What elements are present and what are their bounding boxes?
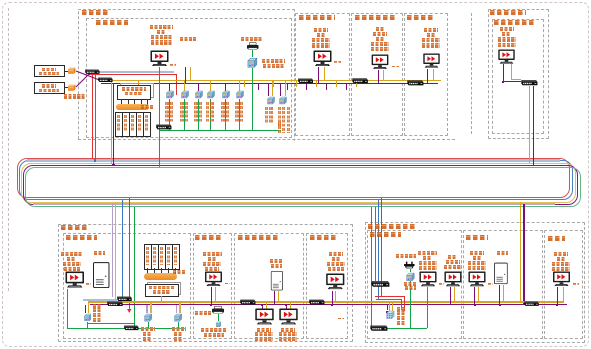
wire gold globe stub1 [389, 303, 390, 311]
wire green MB1 down [67, 289, 68, 329]
rack2 workstation box [145, 284, 179, 297]
label server above page [180, 37, 196, 41]
box station-concentration outer [488, 9, 549, 139]
rack1 bar 2 text [124, 115, 127, 132]
label cube 8 col1 [278, 107, 281, 127]
junction bus bottom 10 [453, 301, 455, 303]
wire green below cube 3 [198, 99, 199, 130]
label backup signal-room [66, 235, 97, 240]
ellipsis after MB6 [439, 283, 444, 285]
wire green below cube 5 [225, 99, 226, 130]
switch SWB [106, 301, 123, 307]
label firewall-group [64, 94, 85, 98]
label below NMS cube [404, 282, 417, 286]
switch S7 [520, 79, 538, 87]
wire gold MB7-bus [454, 287, 455, 301]
label network printer top [241, 37, 262, 41]
wire green NMS down [410, 281, 411, 328]
bus lightblue bottom [83, 299, 118, 301]
rack2 bar 4 [165, 244, 173, 270]
rack1 bar 3 text [131, 115, 134, 132]
ellipsis after MT3 [392, 66, 399, 68]
cube tiny below printer2 [215, 321, 222, 328]
junction purple globe [386, 311, 388, 313]
wire tan ring-down [115, 202, 117, 299]
divider dashed vline x471 [471, 13, 472, 135]
wire T1 to modem1 [65, 71, 68, 72]
wire gold MB9-bus [563, 287, 564, 302]
box duty/control inner [492, 19, 544, 134]
junction purple MB9 [556, 304, 558, 306]
rack1 box shadow [120, 83, 154, 98]
cube access-gateway-1 [143, 313, 152, 322]
wire purple MB3-bus [262, 305, 263, 309]
wire purple MT5 down [503, 64, 504, 83]
wire blue hline right-group [376, 299, 401, 300]
monitor MB6 [419, 271, 437, 287]
wire bus stub 8 [326, 84, 327, 90]
wire green ring-down r2 [375, 207, 376, 281]
label terminal T2 text [42, 84, 56, 87]
wire purple MB9-bus [557, 287, 558, 305]
switch SB8 [523, 300, 539, 307]
cabinet CB3 server [494, 262, 508, 285]
rack2 bar 1 text [146, 247, 149, 265]
wire purple diagonal M2-S1 [75, 72, 91, 88]
wire green MB6 down [427, 287, 428, 328]
label waiting-room [548, 236, 565, 241]
label cube 5 col2 [226, 102, 229, 122]
label above MB2 [203, 252, 222, 256]
wire bus stub 2 [258, 84, 259, 90]
wire purple MT3-bus [378, 70, 379, 84]
cube firewall top-center [246, 57, 258, 69]
cube row 2 [180, 90, 189, 99]
label gate signal-room [370, 232, 401, 237]
label big-screen system [141, 105, 153, 109]
label cube 7 col1 [265, 107, 268, 123]
wire purple drop cube8 [280, 84, 281, 96]
wire gold MT5 down [511, 64, 512, 80]
label below printer2 [201, 328, 227, 332]
ring top lightblue band [27, 159, 560, 162]
wire green cube2 down [148, 322, 149, 328]
wire green strip-cube [410, 269, 411, 273]
switch SWA [116, 296, 132, 302]
cabinet CB1 backup-server [92, 262, 111, 288]
wire lavender cube3 [176, 305, 178, 313]
label above CB1 [94, 251, 105, 255]
wire purple MT2-bus [318, 67, 319, 84]
bus purple top [101, 83, 438, 84]
wire gold MB2-bus [215, 287, 216, 302]
label cube 8 col2 [282, 107, 285, 133]
ring purple [23, 165, 578, 205]
ellipsis after MB8 [488, 283, 493, 285]
wire drop to cube 3 [198, 84, 199, 91]
label cube 3 col1 [194, 102, 197, 122]
wire blue ring-down right [378, 200, 379, 299]
modem M2 orange [67, 84, 77, 91]
wire green cube-bus [252, 68, 253, 130]
wire purple MB5-bus [332, 291, 333, 305]
label duty/control [494, 20, 536, 25]
wire green ring-down-left [134, 207, 135, 329]
wire green printer-cube [252, 50, 253, 56]
wire drop to cube 6 [239, 81, 240, 91]
wire gold CB2-bus [278, 291, 279, 302]
rack1 bar 1 text [117, 115, 120, 132]
wire tan cube2 [150, 303, 152, 314]
ring bottom lavender band [33, 203, 555, 205]
wire green below cube 2 [184, 99, 185, 130]
rack2 bar 5 text [174, 247, 177, 265]
label cube 6 col2 [240, 102, 243, 122]
printer bottom hall [211, 305, 225, 315]
cabinet CB2 sim-host [270, 271, 284, 291]
label above MB1 [61, 252, 82, 256]
wire green below cube 6 [239, 99, 240, 130]
label control-room [466, 235, 488, 240]
label below MB4 [281, 328, 295, 332]
ellipsis after MT2 [334, 61, 341, 63]
label cube 1 col1 [165, 102, 168, 122]
monitor MT2 hall [313, 50, 332, 67]
wire purple page-bus [185, 67, 186, 84]
wire green ring-down r1 [371, 207, 372, 329]
terminal box T1 [34, 65, 65, 77]
cube row 1 [165, 90, 174, 99]
wire purple MT4-bus [427, 69, 428, 84]
rack2 stem 3 [161, 268, 162, 273]
switch S4 [297, 78, 314, 84]
plug power-strip [403, 261, 416, 269]
wire bus stub 6 [306, 84, 307, 90]
wire bus stub 9 [336, 81, 337, 87]
box control-center outer [78, 9, 295, 142]
wire red ring-down [129, 198, 130, 310]
junction bus bottom 9 [335, 301, 337, 303]
wire green cube3 down [178, 322, 179, 328]
label cube 4 col1 [206, 102, 209, 122]
monitor MT1 maintenance-ws [150, 50, 169, 67]
label above MT2 [314, 28, 328, 32]
label cube 1 col2 [170, 102, 173, 122]
junction bus bottom 3 [285, 304, 287, 306]
label right of fw cube [93, 304, 103, 308]
wire purple S7-ring [533, 86, 534, 165]
label backup training [238, 235, 278, 240]
wire lavender ring-down [112, 204, 114, 297]
rack1 bar 3 [129, 112, 137, 137]
monitor MT3 training [370, 54, 390, 70]
junction bus bottom 2 [261, 304, 263, 306]
wire gold switchA-cube [88, 303, 89, 314]
rack2 stem 1 [147, 268, 148, 273]
rack1 stem4 [141, 99, 142, 105]
label cube 8 col3 [287, 107, 290, 133]
arrow red down [127, 309, 132, 313]
box backup-center outer [58, 224, 353, 342]
label cube 2 col2 [185, 102, 188, 122]
switch SB6 gate [370, 280, 390, 288]
cube row 4 [206, 90, 215, 99]
label above MT3 [376, 27, 385, 31]
wire drop to cube 4 [210, 81, 211, 91]
wire gold MT5 elbow [511, 79, 521, 80]
wire gold drop cube7 [272, 81, 273, 96]
junction bus bottom 11 [503, 301, 505, 303]
bus green bottom-right [371, 328, 427, 329]
box waiting-room [544, 230, 583, 339]
junction purple on ring [112, 164, 114, 166]
label hall top-1 [299, 15, 335, 20]
rack2 bar 3 [158, 244, 166, 270]
label backup-center [61, 225, 88, 230]
ellipsis after MT1 [170, 64, 176, 66]
label signal-equip-room [96, 20, 128, 25]
wire tan cube3 [179, 303, 181, 314]
rack1 stem3 [134, 99, 135, 105]
rack1 orange pill [116, 104, 149, 110]
label cube 6 col1 [235, 102, 238, 122]
wire purple ring-down right [523, 204, 524, 304]
wire orange rack1-bus [138, 81, 139, 85]
wire drop to cube 5 [225, 84, 226, 91]
wire purple diagonal M1-S2 [75, 70, 103, 82]
ring yellow [21, 163, 576, 203]
wire bus stub 10 [346, 84, 347, 90]
bus green cubes-row [160, 130, 281, 131]
junction bus bottom 1 [210, 304, 212, 306]
ellipsis after MB2 [225, 283, 230, 285]
wire green link cubes [87, 323, 135, 324]
long dashed hline y139.8 [78, 139, 455, 140]
label terminal T1 text [42, 68, 56, 71]
wire bus stub 7 [316, 81, 317, 87]
wire green printer2 down [218, 314, 219, 321]
cube maintenance NMS [405, 272, 415, 282]
cube row 7 [266, 96, 275, 105]
rack2 bar 2 text [153, 247, 156, 265]
wire blue S1-ring [95, 75, 96, 161]
wire T2 to modem2 [65, 87, 68, 88]
wire gold bus-ring [111, 81, 112, 164]
box backup planner [306, 233, 348, 339]
label printer bottom [195, 311, 211, 315]
box planner top-3 [404, 13, 448, 137]
rack1 bar 5 [143, 112, 151, 137]
wire gold CB3-bus [503, 285, 504, 302]
label above MB5 [329, 252, 343, 256]
wire drop to cube 2 [184, 81, 185, 91]
monitor MT5 station [497, 49, 516, 65]
rack2 box text [149, 286, 175, 290]
wire purple switchA-cube [85, 305, 86, 313]
rack1 stem1 [121, 99, 122, 105]
label above MB8 [470, 251, 484, 255]
monitor MB2 hall-backup [204, 271, 223, 287]
label gate/equip [368, 224, 416, 229]
label right of top cube [262, 59, 285, 63]
label above MB6 [418, 251, 437, 255]
label above CB2 [270, 259, 283, 263]
wire purple CB3-bus [499, 285, 500, 304]
wire gold rack2-bus [161, 296, 162, 302]
monitor MB7 [444, 271, 462, 287]
cube row 6 [235, 90, 244, 99]
wire blue ring-down [122, 200, 123, 300]
wire purple MB4-bus [286, 305, 287, 309]
switch SB4 [239, 299, 256, 305]
box gate signal-room [367, 230, 463, 339]
wire green below cube 1 [169, 99, 170, 130]
wire gold MT3-bus [383, 70, 384, 81]
monitor MB1 backup-ws [65, 271, 85, 289]
wire gold page-bus [190, 67, 191, 81]
server page icon [181, 50, 193, 67]
label at green line end [278, 122, 281, 133]
monitor MB3 sim-1 [254, 308, 275, 325]
junction bus bottom 8 [265, 301, 267, 303]
wire bus stub 4 [287, 84, 288, 90]
label below cube3 [172, 327, 186, 331]
box control-room [463, 230, 543, 339]
rack1 workstation box [117, 85, 151, 100]
wire gold ring-down right [520, 202, 521, 302]
cube row 3 [194, 90, 203, 99]
box backup training [234, 233, 305, 339]
box backup hall [193, 233, 233, 339]
wire gold drop cube8 [285, 81, 286, 96]
ring red [17, 158, 570, 198]
label cube 7 col2 [269, 107, 272, 123]
box gate/equip outer [365, 222, 585, 343]
label cube 4 col2 [210, 102, 213, 122]
switch S6 [406, 80, 424, 86]
rack2 stem 2 [154, 268, 155, 273]
junction blue on ring [94, 159, 96, 161]
label backup hall [195, 235, 222, 240]
label station-concentration [490, 10, 526, 15]
rack2 bar 2 [151, 244, 159, 270]
wire purple drop cube7 [268, 84, 269, 96]
wire purple MT5 elbow [503, 81, 522, 82]
rack2 stem 5 [175, 268, 176, 273]
label control-center [82, 10, 109, 15]
modem M1 orange [67, 67, 77, 74]
rack1 bar 4 text [138, 115, 141, 132]
rack2 orange pill [144, 273, 177, 280]
wire green fwcube down [87, 322, 88, 329]
switch SWC [123, 325, 139, 331]
wire gold MB4-bus [290, 303, 291, 310]
label cube 2 col1 [180, 102, 183, 122]
left inner dashed divider [8, 8, 9, 291]
box signal-equip-room inner [86, 18, 293, 138]
wire blue stub down right-group [401, 299, 402, 310]
rack2 bar 1 [144, 244, 152, 270]
rack1 bar 5 text [145, 115, 148, 132]
switch S2 [97, 77, 113, 83]
wire red stub down right-group [404, 296, 405, 311]
box training top-2 [351, 13, 403, 137]
label maintenance terminal [396, 254, 416, 258]
monitor MB5 planner-backup [325, 273, 346, 290]
junction bus bottom 5 [474, 304, 476, 306]
wire red drop x176 [176, 74, 177, 96]
wire bus stub 3 [273, 81, 274, 87]
label backup planner [310, 235, 337, 240]
wire green below cube 4 [210, 99, 211, 130]
bus purple bottom [90, 304, 567, 305]
rack2 bar 5 [172, 244, 180, 270]
rack1 box text [122, 87, 146, 91]
bus green bottom-left [67, 328, 185, 329]
junction bus bottom 7 [214, 301, 216, 303]
wire lavender cube2 [146, 305, 148, 313]
rack1 bar 4 [136, 112, 144, 137]
wire gold MB5-bus [335, 291, 336, 302]
label below cube2 [141, 327, 155, 331]
wire gold MB8-bus [478, 287, 479, 301]
junction bus bottom 6 [499, 304, 501, 306]
box backup signal-room [63, 233, 191, 339]
wire gold S7-ring [529, 86, 530, 163]
wire gold MB3-bus [266, 303, 267, 310]
switch S1 [84, 69, 100, 74]
label above MT5 [500, 27, 514, 31]
box hall top-1 [295, 13, 350, 137]
wire gold MT2-bus [324, 67, 325, 81]
label right of globe cube [397, 307, 407, 311]
ellipsis after MB1 [86, 283, 91, 285]
wire bus stub 1 [244, 81, 245, 87]
wire purple MB7-bus [450, 287, 451, 304]
wire purple bus-ring [113, 84, 114, 166]
label above MB7 [448, 255, 457, 259]
wire purple MB8-bus [474, 287, 475, 304]
label above CB3 [497, 251, 508, 255]
wire red S1-ring [92, 75, 93, 159]
wire red hline right-group [375, 296, 404, 297]
switch SB5 [308, 299, 325, 305]
ellipsis after MB9 [573, 283, 579, 285]
junction purple MT5 elbow [502, 81, 504, 83]
rack1 bar 2 [122, 112, 130, 137]
rack1 stem5 [147, 99, 148, 105]
junction bus bottom 4 [331, 304, 333, 306]
label below MB3 [257, 328, 271, 332]
monitor MB4 sim-2 [278, 308, 299, 325]
cube access-gateway-2 [173, 313, 182, 322]
rack2 box shadow [147, 282, 181, 295]
wire green MT1-ring [159, 67, 160, 167]
cube globe gateway [385, 310, 395, 320]
label planner top-3 [407, 15, 433, 20]
printer top [246, 42, 260, 50]
label above MT4 [424, 28, 438, 32]
bus gold top [99, 80, 441, 81]
rack2 stem 4 [168, 268, 169, 273]
wire gold MT4-bus [433, 69, 434, 81]
rack2 bar 3 text [160, 247, 163, 265]
bus lightblue top [88, 71, 174, 73]
wire purple MB2-bus [211, 287, 212, 305]
wire purple CB2-bus [274, 291, 275, 305]
wire drop to cube 1 [169, 84, 170, 91]
terminal box T2 [34, 82, 65, 94]
